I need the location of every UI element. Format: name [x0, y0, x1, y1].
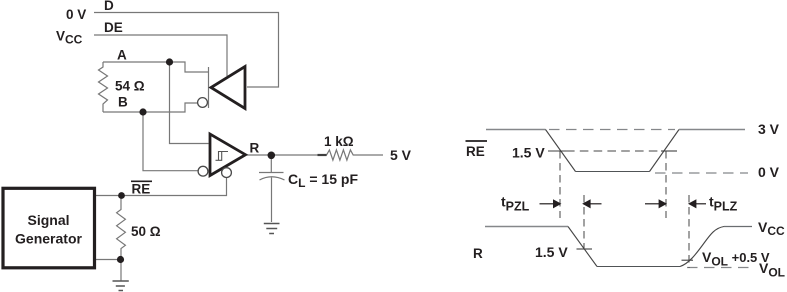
svg-text:R: R — [250, 141, 260, 156]
svg-text:CL = 15 pF: CL = 15 pF — [288, 171, 358, 190]
svg-text:VOL: VOL — [759, 260, 785, 280]
svg-text:RE: RE — [132, 182, 151, 197]
svg-text:DE: DE — [104, 20, 123, 35]
svg-text:VCC: VCC — [758, 219, 785, 238]
svg-text:1 kΩ: 1 kΩ — [324, 134, 354, 149]
svg-text:RE: RE — [466, 144, 485, 159]
svg-text:tPLZ: tPLZ — [709, 194, 738, 214]
svg-text:1.5 V: 1.5 V — [535, 244, 568, 260]
svg-text:1.5 V: 1.5 V — [512, 145, 545, 161]
svg-text:D: D — [104, 0, 114, 13]
svg-text:50 Ω: 50 Ω — [131, 224, 161, 239]
svg-text:B: B — [118, 95, 128, 110]
svg-text:54 Ω: 54 Ω — [115, 79, 145, 94]
svg-text:Generator: Generator — [15, 231, 82, 247]
svg-text:3 V: 3 V — [758, 121, 780, 137]
svg-text:tPZL: tPZL — [501, 194, 530, 214]
svg-text:0 V: 0 V — [758, 164, 780, 180]
svg-text:VCC: VCC — [56, 29, 83, 47]
svg-text:R: R — [473, 246, 483, 261]
svg-text:Signal: Signal — [27, 212, 69, 228]
svg-text:5 V: 5 V — [390, 147, 412, 163]
svg-text:0 V: 0 V — [66, 7, 86, 22]
svg-text:A: A — [117, 48, 127, 63]
